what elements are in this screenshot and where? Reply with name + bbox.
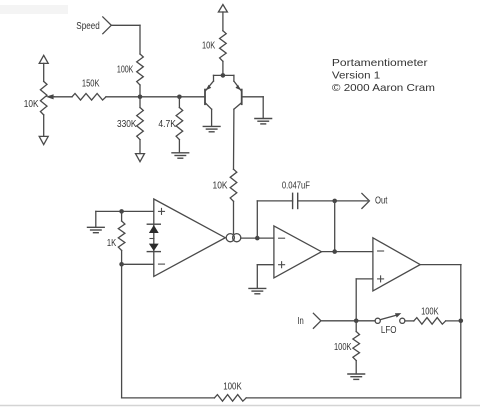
svg-text:330K: 330K: [117, 119, 137, 130]
ground (4.7K): [172, 153, 189, 158]
svg-text:100K: 100K: [223, 382, 242, 393]
node right riser: [459, 319, 464, 324]
connector Out: [362, 193, 370, 208]
wire switch to 100K: [405, 320, 414, 322]
svg-text:100K: 100K: [421, 306, 439, 317]
connector Speed: [103, 17, 112, 34]
node U1 + / 1K: [119, 209, 124, 214]
title text: [332, 57, 435, 94]
wire U2 + to ground: [257, 265, 274, 289]
wire left feedback loop: [122, 264, 215, 398]
U3 + pin label: [378, 276, 384, 282]
resistor 10K (mid): [230, 169, 237, 233]
ground (In shunt): [348, 374, 365, 379]
capacitor C1 0.047uF: [293, 193, 298, 208]
wire In to switch: [321, 320, 375, 322]
U1 + pin label: [159, 208, 165, 214]
resistor 1K: [118, 211, 125, 264]
svg-text:© 2000 Aaron Cram: © 2000 Aaron Cram: [332, 82, 435, 94]
resistor 150K: [72, 94, 106, 101]
wire node up to capacitor: [257, 201, 292, 238]
wire U1 + input to ground: [96, 211, 154, 227]
wire U1 - input: [122, 263, 154, 265]
wire bottom to right riser: [246, 321, 461, 398]
op-amp U2: [274, 226, 322, 278]
wire 150K to Q1 base: [106, 96, 205, 98]
node cap/out: [332, 199, 337, 204]
emitter rail + node: [214, 73, 234, 81]
node OTA output: [255, 236, 260, 241]
resistor 330K: [137, 97, 144, 154]
resistor 100K (speed): [137, 54, 144, 97]
svg-text:1K: 1K: [107, 238, 117, 249]
ground (U1 + input): [88, 227, 105, 232]
svg-text:LFO: LFO: [381, 325, 397, 336]
svg-text:10K: 10K: [213, 181, 228, 192]
node junction (4.7K): [177, 95, 182, 100]
U1 - pin label: [159, 263, 165, 265]
potentiometer R 10K (left): [40, 81, 47, 136]
svg-text:100K: 100K: [334, 342, 352, 353]
resistor 10K (top): [220, 31, 227, 76]
op-amp U1 (OTA triangle): [154, 199, 226, 276]
ground (Q1 collector): [203, 126, 220, 131]
wire U3 + down to In node: [356, 279, 373, 321]
wire U3 output to right riser: [420, 265, 461, 321]
svg-text:Speed: Speed: [76, 21, 99, 32]
transistor Q1 (left PNP): [205, 81, 214, 126]
node In/100K/U3+: [354, 319, 359, 324]
node junction (150K/100K/330K): [138, 95, 143, 100]
op-amp U3: [373, 238, 420, 291]
wire wiper to 150K: [55, 96, 73, 98]
wire OTA output to node: [241, 237, 274, 239]
node U1 - / 1K: [119, 262, 124, 267]
resistor 100K (LFO series): [414, 318, 461, 325]
transistor Q2 (right PNP): [234, 81, 263, 118]
svg-text:Version 1: Version 1: [332, 70, 380, 82]
svg-text:10K: 10K: [24, 99, 39, 110]
svg-text:Portamentiometer: Portamentiometer: [332, 57, 428, 69]
V+ supply arrow (left pot top): [39, 55, 48, 81]
diode D2 (down, cathode bottom): [147, 239, 160, 252]
svg-text:4.7K: 4.7K: [158, 119, 176, 130]
ground (U2 +): [249, 288, 266, 293]
svg-text:100K: 100K: [117, 65, 134, 76]
pot wiper arrow: [46, 94, 55, 99]
svg-text:Out: Out: [375, 195, 388, 206]
OTA output double circle: [226, 234, 241, 242]
svg-text:10K: 10K: [202, 41, 215, 52]
V- supply arrow (330K bottom): [136, 154, 145, 162]
wire U2 output to U3 - input: [322, 251, 373, 253]
resistor 100K (to ground): [353, 321, 360, 374]
svg-text:0.047uF: 0.047uF: [282, 181, 310, 192]
diode D1 (up, cathode top): [147, 224, 160, 233]
connector In: [313, 313, 321, 328]
switch S1 LFO: [375, 313, 405, 323]
wire capacitor to Out: [298, 200, 368, 202]
V- supply arrow (left pot bottom): [39, 136, 48, 144]
ground (Q2 base): [255, 119, 272, 124]
node U2 out / cap branch: [332, 249, 337, 254]
U2 + pin label: [279, 262, 285, 268]
svg-text:In: In: [297, 316, 303, 327]
resistor 4.7K: [176, 97, 183, 153]
scan artifact line (bottom): [0, 405, 480, 407]
U3 - pin label: [378, 250, 384, 252]
U2 - pin label: [279, 237, 285, 239]
resistor 100K (bottom): [214, 395, 246, 402]
wire Speed to 100K: [111, 25, 140, 54]
wire node down to op2 output: [334, 201, 336, 252]
svg-text:150K: 150K: [82, 78, 100, 89]
V+ supply arrow (10K top): [218, 5, 227, 31]
wire Q2 collector down: [233, 109, 235, 169]
